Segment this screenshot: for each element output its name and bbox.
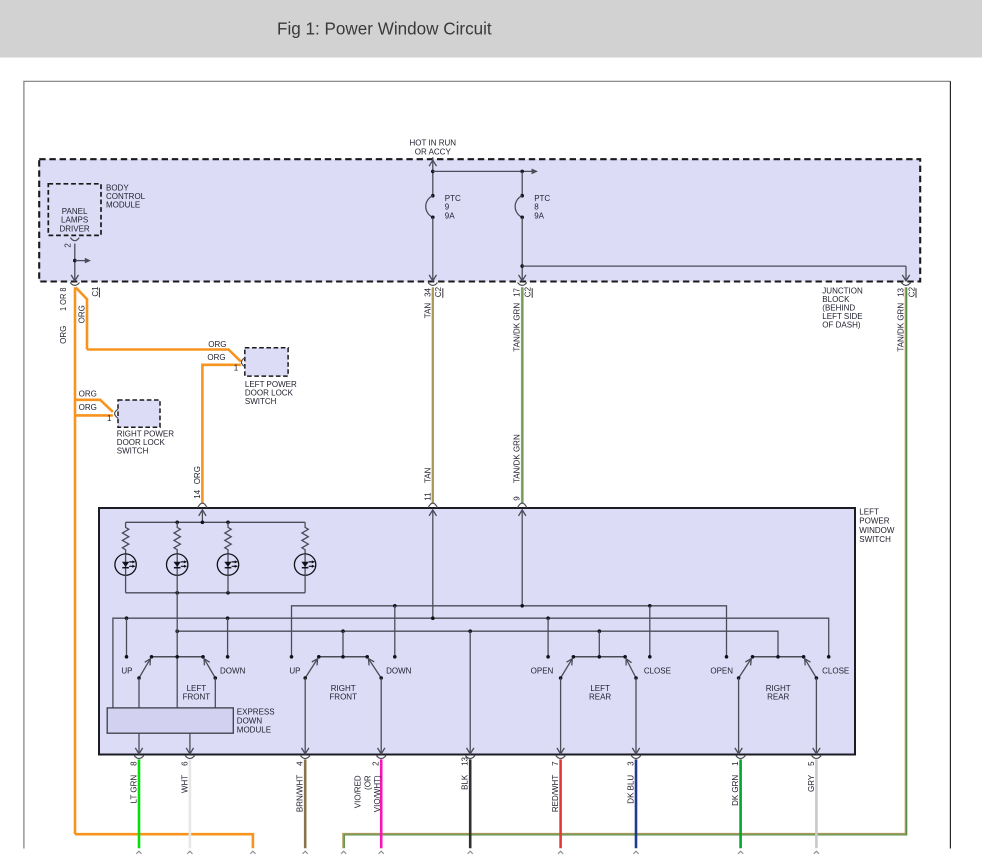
cut arrowhead hint x=138.9 — [136, 851, 141, 854]
svg-text:REAR: REAR — [767, 692, 789, 701]
connector bracket pin 13 — [901, 283, 910, 286]
svg-text:VIO/WHT): VIO/WHT) — [373, 775, 382, 812]
svg-text:LEFT: LEFT — [859, 507, 879, 516]
svg-text:GRY: GRY — [807, 774, 816, 792]
arrow branch continuation — [85, 258, 91, 264]
svg-text:8: 8 — [130, 761, 139, 766]
wire LED to bottom bus x=125.6 — [125, 575, 127, 593]
node PTC 8 branch — [520, 264, 524, 268]
svg-text:DRIVER: DRIVER — [59, 224, 89, 233]
svg-text:ORG: ORG — [78, 305, 87, 323]
arrow RIGHT REAR left pin exit — [735, 748, 742, 754]
wire LED to bottom bus x=305.1 — [304, 575, 306, 593]
express down module box — [107, 708, 233, 733]
wire branch arrow — [75, 260, 85, 262]
svg-text:DOWN: DOWN — [220, 667, 246, 676]
connector bracket pin 34 — [428, 283, 437, 286]
illumination LED at x=177.2 — [167, 554, 188, 575]
svg-text:BLK: BLK — [461, 774, 470, 790]
connector bracket pin 17 — [518, 283, 527, 286]
connector bracket window switch pin 13 — [466, 756, 475, 759]
resistor at x=305.1 — [302, 522, 308, 554]
wire module output pin 8 — [138, 733, 140, 754]
svg-text:3: 3 — [627, 761, 636, 766]
switch LEFT REAR stationary contacts — [546, 655, 550, 659]
arrow pin 11 entry — [429, 510, 436, 516]
wire to RF centre — [342, 631, 344, 657]
svg-text:LT GRN: LT GRN — [130, 775, 139, 804]
svg-text:ORG: ORG — [79, 390, 97, 399]
arrow bus continuation — [532, 169, 538, 175]
svg-text:11: 11 — [423, 492, 432, 501]
wire ORG from right door lock pin — [75, 414, 113, 417]
wire LED to bottom bus x=177.2 — [176, 575, 178, 593]
arrow pin 17 exit — [519, 275, 526, 281]
bus H4 — [113, 618, 829, 708]
svg-text:5: 5 — [807, 761, 816, 766]
wire DK BLU pin 3 — [635, 759, 638, 848]
svg-text:TAN: TAN — [423, 467, 432, 483]
wire to RF DOWN contact — [394, 606, 396, 657]
svg-text:SWITCH: SWITCH — [117, 447, 149, 456]
wire GRY pin 5 — [815, 759, 818, 848]
wire to LR OPEN contact — [547, 618, 549, 657]
wire branch to junction block pin 13 — [522, 265, 906, 267]
wire ORG bottom run — [75, 834, 253, 848]
arrow pin 13 exit — [467, 748, 474, 754]
wire ORG main feed vertical — [74, 287, 77, 834]
connector bracket C1 — [70, 283, 79, 286]
wire LED to bottom bus x=228.0 — [227, 575, 229, 593]
connector bracket right door lock pin 1 — [115, 409, 118, 418]
connector bracket window switch pin 4 — [301, 756, 310, 759]
switch LEFT FRONT right throw wire — [214, 678, 216, 708]
switch LEFT REAR bar nodes — [572, 655, 576, 659]
wire WHT pin 6 — [189, 759, 192, 848]
wire module output pin 6 — [189, 733, 191, 754]
left power window switch box — [99, 508, 855, 755]
wire panel lamps driver output — [74, 244, 76, 281]
connector bracket window switch pin 8 — [134, 756, 143, 759]
bus H5 — [177, 631, 778, 657]
wire BRN/WHT pin 4 — [304, 759, 307, 848]
svg-text:FRONT: FRONT — [329, 692, 357, 701]
switch LEFT REAR right arm — [626, 659, 636, 678]
switch RIGHT REAR left arm — [739, 659, 752, 678]
connector bracket window switch pin 7 — [556, 756, 565, 759]
svg-text:EXPRESS: EXPRESS — [237, 707, 275, 716]
svg-text:OF DASH): OF DASH) — [822, 320, 861, 329]
svg-text:MODULE: MODULE — [106, 200, 140, 209]
switch RIGHT REAR contact bar — [753, 656, 804, 658]
node lamps driver branch — [73, 259, 77, 263]
node lamp bottom bus — [175, 591, 179, 595]
arrow module pin 8 exit — [135, 748, 142, 754]
svg-text:C2: C2 — [907, 286, 916, 297]
switch RIGHT REAR bar nodes — [751, 655, 755, 659]
cut arrowhead hint x=343.6 — [341, 851, 346, 854]
arrow RIGHT REAR right pin exit — [813, 748, 820, 754]
svg-text:DK BLU: DK BLU — [627, 775, 636, 804]
svg-text:TAN/DK GRN: TAN/DK GRN — [513, 303, 522, 352]
cut arrowhead hint x=636.0 — [633, 851, 638, 854]
svg-text:TAN/DK GRN: TAN/DK GRN — [897, 303, 906, 352]
wire lamp top bus — [126, 521, 306, 523]
svg-text:9A: 9A — [534, 211, 544, 220]
wire ORG branch diagonal from C1 — [76, 288, 87, 350]
switch LEFT FRONT contact bar — [152, 656, 204, 658]
left power door lock switch box — [245, 348, 288, 376]
connector bracket window switch pin 2 — [377, 756, 386, 759]
wire PTC 8 output to pin 17 — [521, 217, 523, 281]
node H5 junctions — [175, 629, 179, 633]
switch LEFT FRONT left throw wire — [138, 678, 140, 708]
svg-text:CLOSE: CLOSE — [644, 667, 671, 676]
svg-text:8: 8 — [534, 203, 539, 212]
wire pin 11 to bus H4 — [432, 510, 434, 618]
wire TAN/DK GRN — [521, 287, 523, 503]
resistor at x=177.2 — [174, 522, 180, 554]
svg-text:PTC: PTC — [445, 194, 461, 203]
switch LEFT FRONT right arm — [204, 659, 215, 678]
wire pin 13 BLK column — [469, 631, 471, 754]
svg-text:REAR: REAR — [589, 692, 611, 701]
switch LEFT FRONT bar nodes — [150, 655, 154, 659]
connector bracket window switch pin 6 — [185, 756, 194, 759]
svg-text:1 OR 8: 1 OR 8 — [59, 287, 68, 311]
svg-text:DK GRN: DK GRN — [731, 775, 740, 806]
connector bracket window switch pin 1 — [736, 756, 745, 759]
wire ORG to right door lock switch — [75, 400, 113, 412]
connector bracket window switch pin 3 — [631, 756, 640, 759]
svg-text:UP: UP — [121, 667, 132, 676]
svg-text:2: 2 — [63, 243, 72, 248]
svg-text:13: 13 — [461, 756, 470, 765]
svg-text:7: 7 — [551, 761, 560, 766]
switch RIGHT REAR right arm — [805, 659, 817, 678]
wire PTC 9 output to pin 34 — [432, 217, 434, 281]
svg-text:17: 17 — [513, 287, 522, 296]
svg-text:ORG: ORG — [207, 353, 225, 362]
svg-text:POWER: POWER — [859, 517, 889, 526]
cut arrowhead hint x=816.4 — [814, 851, 819, 854]
svg-text:BRN/WHT: BRN/WHT — [296, 775, 305, 812]
switch RIGHT FRONT right throw wire — [380, 678, 382, 754]
svg-text:OPEN: OPEN — [531, 667, 554, 676]
connector bracket window switch pin 5 — [812, 756, 821, 759]
svg-text:14: 14 — [193, 489, 202, 498]
cut arrowhead hint x=740.6 — [738, 851, 743, 854]
svg-text:13: 13 — [897, 287, 906, 296]
svg-text:WINDOW: WINDOW — [859, 526, 895, 535]
svg-text:2: 2 — [372, 761, 381, 766]
wire bus to PTC 8 — [521, 171, 523, 195]
wire LT GRN pin 8 — [138, 759, 141, 848]
resistor at x=228.0 — [225, 522, 231, 554]
svg-text:ORG: ORG — [79, 403, 97, 412]
node lamp bus — [175, 521, 179, 525]
connector bracket window switch pin 14 — [198, 503, 207, 508]
fuse PTC 8 bottom node — [520, 216, 524, 220]
switch LEFT REAR contact bar — [573, 656, 625, 658]
wire to LF UP contact — [126, 618, 128, 657]
wire hot-in-run feed into BCM — [432, 157, 434, 196]
svg-text:SWITCH: SWITCH — [859, 535, 891, 544]
svg-text:RED/WHT: RED/WHT — [551, 775, 560, 812]
bus H3 — [292, 606, 727, 657]
cut arrowhead hint x=189.9 — [187, 851, 192, 854]
svg-text:OPEN: OPEN — [710, 667, 733, 676]
fuse PTC 8 arc — [515, 196, 522, 218]
svg-text:ORG: ORG — [193, 466, 202, 484]
switch RIGHT FRONT bar nodes — [317, 655, 321, 659]
wire pin 9 to bus H3 — [521, 510, 523, 606]
connector bracket panel lamps driver pin 2 — [70, 238, 79, 241]
svg-text:UP: UP — [289, 667, 300, 676]
svg-text:MODULE: MODULE — [237, 725, 271, 734]
svg-text:DOWN: DOWN — [237, 716, 263, 725]
svg-text:6: 6 — [180, 761, 189, 766]
svg-text:1: 1 — [107, 414, 112, 423]
wire VIO/RED pin 2 — [380, 759, 383, 848]
switch LEFT REAR right throw wire — [635, 678, 637, 754]
svg-text:WHT: WHT — [180, 775, 189, 793]
wire pin 14 to lamp bus — [201, 510, 203, 522]
node H3 junctions — [393, 604, 397, 608]
switch RIGHT FRONT stationary contacts — [290, 655, 294, 659]
svg-text:Fig 1: Power Window Circuit: Fig 1: Power Window Circuit — [277, 19, 492, 38]
switch RIGHT FRONT left throw wire — [304, 678, 306, 754]
svg-text:PTC: PTC — [534, 194, 550, 203]
connector bracket window switch pin 11 — [428, 503, 437, 508]
svg-text:ORG: ORG — [59, 326, 68, 344]
svg-text:9A: 9A — [445, 211, 455, 220]
arrow LEFT REAR left pin exit — [557, 748, 564, 754]
right power door lock switch box — [118, 400, 160, 427]
wire RED/WHT pin 7 — [559, 759, 562, 848]
switch LEFT FRONT stationary contacts — [125, 655, 129, 659]
cut arrowhead hint x=381.2 — [379, 851, 384, 854]
svg-text:ORG: ORG — [208, 340, 226, 349]
cut arrowhead hint x=252.9 — [250, 851, 255, 854]
switch RIGHT FRONT left arm — [305, 659, 317, 678]
connector bracket window switch pin 9 — [518, 503, 527, 508]
svg-text:9: 9 — [445, 203, 450, 212]
arrow pin 14 entry — [199, 510, 206, 516]
svg-text:HOT IN RUN: HOT IN RUN — [410, 138, 457, 147]
illumination LED at x=125.6 — [115, 554, 136, 575]
arrow pin 9 entry — [519, 510, 526, 516]
svg-text:9: 9 — [513, 496, 522, 501]
wire lamp bottom bus — [126, 592, 306, 594]
switch RIGHT FRONT right arm — [368, 659, 381, 678]
wire DK GRN pin 1 — [739, 759, 742, 848]
cut arrowhead hint x=560.6 — [558, 851, 563, 854]
connector bracket left door lock pin 1 — [241, 358, 244, 367]
switch RIGHT REAR right throw wire — [815, 678, 817, 754]
arrow module pin 6 exit — [186, 748, 193, 754]
page header bar — [0, 0, 982, 58]
svg-text:TAN/DK GRN: TAN/DK GRN — [513, 434, 522, 483]
wire lamp column to module — [176, 593, 178, 708]
node bus junction PTC9 — [431, 170, 435, 174]
svg-text:1: 1 — [234, 363, 239, 372]
illumination LED at x=305.1 — [294, 554, 315, 575]
arrow RIGHT FRONT left pin exit — [302, 748, 309, 754]
wire TAN/DK GRN junction block — [343, 287, 905, 848]
svg-text:34: 34 — [423, 287, 432, 296]
svg-text:(OR: (OR — [363, 775, 372, 790]
node bus junction PTC8 — [520, 170, 524, 174]
svg-text:C1: C1 — [91, 286, 100, 297]
resistor at x=125.6 — [122, 522, 128, 554]
wire ORG to left door lock switch — [87, 350, 241, 362]
node H4 junctions — [125, 616, 129, 620]
svg-text:LAMPS: LAMPS — [61, 215, 88, 224]
arrow pin 13 exit — [902, 275, 909, 281]
switch LEFT FRONT left arm — [139, 659, 150, 678]
switch RIGHT REAR left throw wire — [738, 678, 740, 754]
fuse PTC 9 top node — [431, 194, 435, 198]
fuse PTC 9 bottom node — [431, 216, 435, 220]
svg-text:VIO/RED: VIO/RED — [353, 775, 362, 808]
arrow pin 34 exit — [429, 275, 436, 281]
body control module box (BCM) — [39, 159, 920, 281]
arrow at BCM top edge — [429, 160, 436, 166]
wire to LR centre — [598, 631, 600, 657]
cut arrowhead hint x=470.2 — [468, 851, 473, 854]
switch RIGHT FRONT contact bar — [319, 656, 367, 658]
wire to LR CLOSE contact — [649, 606, 651, 657]
switch RIGHT REAR stationary contacts — [725, 655, 729, 659]
wire to LF DOWN contact — [227, 618, 229, 657]
svg-text:C2: C2 — [434, 286, 443, 297]
cut arrowhead hint x=305.2 — [303, 851, 308, 854]
illumination LED at x=228.0 — [217, 554, 238, 575]
wire ORG left switch to window switch pin 14 — [202, 365, 240, 503]
wire BLK pin 13 — [469, 759, 472, 848]
svg-text:DOWN: DOWN — [386, 667, 412, 676]
svg-text:FRONT: FRONT — [183, 692, 211, 701]
arrow LEFT REAR right pin exit — [632, 748, 639, 754]
svg-text:OR ACCY: OR ACCY — [415, 148, 452, 157]
switch LEFT REAR left throw wire — [560, 678, 562, 754]
wire BCM internal bus — [433, 170, 532, 172]
fuse PTC 8 top node — [520, 194, 524, 198]
svg-text:1: 1 — [731, 761, 740, 766]
svg-text:CLOSE: CLOSE — [822, 667, 849, 676]
switch LEFT REAR left arm — [561, 659, 573, 678]
wire TAN — [432, 287, 434, 503]
panel lamps driver box (dashed) — [48, 184, 101, 236]
arrow RIGHT FRONT right pin exit — [378, 748, 385, 754]
arrow C1 exit — [71, 275, 78, 281]
svg-text:SWITCH: SWITCH — [245, 397, 277, 406]
svg-text:TAN: TAN — [423, 303, 432, 319]
fuse PTC 9 arc — [426, 196, 433, 218]
svg-text:C2: C2 — [524, 286, 533, 297]
svg-text:4: 4 — [296, 761, 305, 766]
